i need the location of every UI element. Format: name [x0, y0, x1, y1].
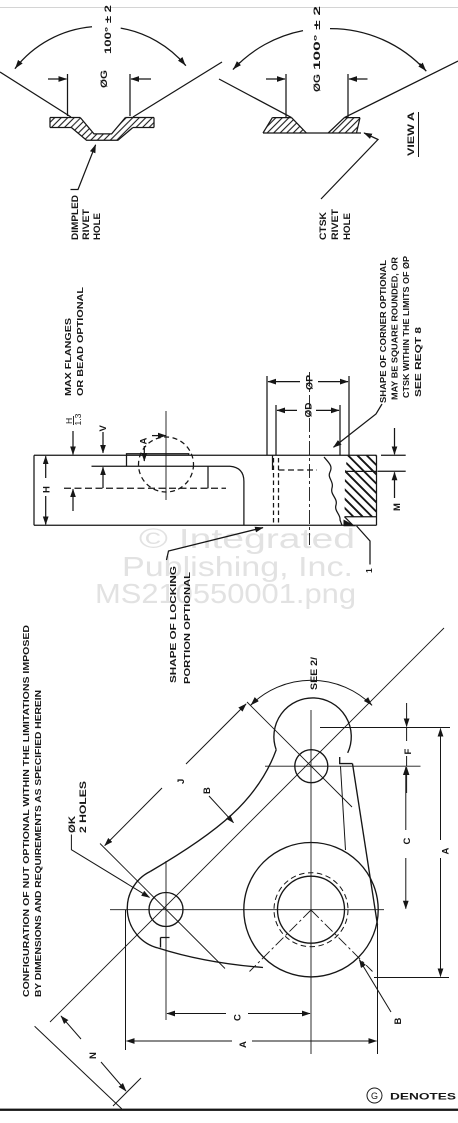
diameter P dimension line and arrows — [268, 381, 300, 383]
svg-text:100° ± 2: 100° ± 2 — [103, 5, 114, 54]
corner extension diagonal — [35, 1026, 122, 1109]
nut bore circle — [278, 876, 345, 943]
A dimension bottom — [127, 1040, 233, 1042]
body right rounded corner — [230, 466, 244, 525]
svg-text:MAY BE SQUARE ROUNDED, OR: MAY BE SQUARE ROUNDED, OR — [390, 257, 400, 400]
thread centerline (side view) — [309, 372, 311, 545]
countersink angle line right (view 1) — [133, 62, 222, 117]
100 deg dimension arc (view 2) — [233, 31, 303, 70]
svg-text:MAX FLANGES: MAX FLANGES — [63, 318, 73, 396]
locking portion dashed top — [279, 469, 318, 471]
svg-text:PORTION OPTIONAL: PORTION OPTIONAL — [182, 572, 192, 684]
svg-text:J: J — [176, 779, 187, 784]
inner edge line below top lug — [341, 767, 346, 851]
nut bottom line — [34, 524, 377, 526]
J dimension line and arrows — [105, 788, 162, 846]
left lug step ticks — [161, 938, 170, 948]
nut body top line — [34, 454, 377, 456]
dimple cone outline (view 1) — [71, 128, 132, 141]
F dimension arrows — [406, 703, 408, 727]
svg-text:CTSK WITHIN THE LIMITS OF ØP: CTSK WITHIN THE LIMITS OF ØP — [401, 256, 411, 398]
SEE 2/ arc — [251, 680, 373, 705]
svg-text:HOLE: HOLE — [342, 213, 353, 240]
H dimension — [45, 456, 47, 478]
concave edge between lugs — [150, 750, 276, 872]
ctsk sheet bar (view 2) — [263, 118, 361, 133]
hatching of dimpled sheet — [50, 118, 80, 128]
svg-text:B: B — [393, 1018, 404, 1025]
dimpled sheet bar (view 1) — [50, 118, 154, 128]
top rivet hole — [295, 750, 328, 783]
horizontal centerline through holes — [110, 909, 384, 911]
leader B upper — [209, 796, 234, 823]
side view thread hatch — [345, 471, 377, 516]
svg-text:H: H — [42, 486, 53, 493]
svg-text:RIVET: RIVET — [330, 209, 341, 240]
countersink angle line left (view 1) — [0, 72, 71, 117]
svg-text:G: G — [371, 1091, 378, 1101]
svg-text:SEE 2/: SEE 2/ — [309, 657, 320, 690]
svg-text:ØK: ØK — [67, 816, 78, 833]
rivet centerline (side view) — [165, 411, 167, 500]
C dimension right side — [405, 767, 407, 830]
svg-text:SHAPE OF CORNER OPTIONAL: SHAPE OF CORNER OPTIONAL — [378, 260, 388, 403]
svg-text:OR BEAD OPTIONAL: OR BEAD OPTIONAL — [75, 287, 85, 396]
bottom edge to nut body — [158, 948, 263, 968]
leader shape of locking — [167, 528, 264, 560]
bead boss outline — [127, 454, 189, 467]
nut left edge — [33, 455, 35, 525]
A left extension vertical — [125, 910, 127, 1050]
diameter D extension lines — [275, 405, 277, 455]
svg-text:ØG: ØG — [99, 70, 110, 88]
svg-text:ØG: ØG — [312, 74, 323, 92]
leader to ctsk hole — [321, 133, 378, 199]
hatching of ctsk sheet — [263, 118, 306, 133]
nut right edge — [376, 455, 378, 525]
diameter G extension lines (view 1) — [67, 74, 69, 116]
footnote 1 leader — [357, 526, 370, 565]
A right extension vertical — [377, 925, 379, 1054]
svg-text:M: M — [392, 503, 403, 511]
svg-text:B: B — [202, 787, 213, 794]
svg-text:CONFIGURATION OF NUT OPTIONAL: CONFIGURATION OF NUT OPTIONAL WITHIN THE… — [21, 625, 31, 997]
M dimension arrows — [394, 428, 396, 454]
N extension tick — [113, 1078, 141, 1106]
left lug arc — [127, 872, 158, 949]
perpendicular diagonal at top hole — [247, 702, 352, 807]
svg-text:C: C — [402, 838, 413, 845]
perpendicular diagonal at left hole — [100, 844, 225, 969]
A dimension bottom extension line — [374, 977, 449, 979]
svg-text:HOLE: HOLE — [92, 213, 103, 240]
top hole horizontal centerline — [265, 765, 421, 767]
svg-text:C: C — [233, 1014, 244, 1021]
svg-text:V: V — [98, 425, 109, 432]
countersink angle line left (view 2) — [219, 79, 292, 118]
svg-text:100° ± 2: 100° ± 2 — [312, 6, 323, 70]
thread section bottom line — [345, 516, 377, 518]
svg-text:SEE REQT 8: SEE REQT 8 — [413, 327, 423, 397]
svg-text:1.3: 1.3 — [73, 413, 83, 425]
nut body outer circle — [244, 843, 378, 977]
V dimension arrows — [102, 432, 104, 453]
diameter D dimension line and arrows — [277, 409, 297, 411]
svg-text:2 HOLES: 2 HOLES — [78, 781, 89, 833]
countersink walls (view 2) — [292, 118, 345, 133]
leader to dimpled hole — [71, 145, 96, 190]
main 45 deg diagonal centerline — [50, 628, 444, 1022]
dashed circle detail A — [139, 437, 194, 492]
svg-text:A: A — [441, 848, 452, 855]
A dimension right side — [440, 729, 442, 841]
svg-text:ØD: ØD — [304, 402, 315, 417]
bottom border line — [0, 1109, 458, 1111]
thread break wavy line — [324, 457, 342, 525]
ctsk corner filled triangle — [344, 520, 357, 527]
svg-text:1: 1 — [364, 568, 374, 573]
vertical centerline left hole — [165, 861, 167, 1020]
svg-text:CTSK: CTSK — [318, 212, 329, 240]
watermark © Integrated Publishing — [95, 523, 356, 609]
thread dashed circle — [274, 873, 348, 947]
locking portion dashed verticals — [273, 458, 275, 525]
M dimension ticks — [381, 454, 406, 456]
circled G — [367, 1088, 382, 1103]
svg-text:SHAPE OF LOCKING: SHAPE OF LOCKING — [168, 565, 178, 683]
nut corner diagonal right — [311, 910, 373, 972]
flange/body dashed line — [64, 487, 226, 489]
countersink angle line right (view 2) — [344, 61, 458, 118]
right edge of plate — [353, 764, 378, 925]
label H over 1.3 fraction — [64, 413, 83, 425]
left rivet hole — [149, 893, 183, 927]
100 deg dimension arc (view 1) — [15, 27, 92, 69]
flange underside line — [92, 465, 231, 467]
faint scan line top — [0, 6, 458, 9]
view A letter arrow — [152, 435, 166, 437]
counterbore edge vertical — [272, 455, 274, 470]
svg-text:DIMPLED: DIMPLED — [70, 195, 81, 240]
svg-text:F: F — [403, 749, 414, 755]
nut corner diagonal left — [250, 910, 312, 972]
body step vertical — [207, 466, 209, 488]
svg-text:RIVET: RIVET — [81, 209, 92, 240]
svg-text:N: N — [88, 1052, 99, 1059]
flange thickness divide line — [345, 470, 377, 472]
svg-text:© Integrated: © Integrated — [139, 523, 355, 554]
diameter G arrows (view 2) — [266, 78, 285, 80]
top lug step — [340, 757, 353, 764]
diameter G arrows (view 1) — [48, 78, 67, 80]
svg-text:A: A — [139, 438, 150, 445]
side view flange hatch — [345, 455, 377, 471]
svg-text:MS210550001.png: MS210550001.png — [95, 578, 356, 609]
svg-text:ØP: ØP — [305, 374, 316, 390]
diameter P extension lines — [266, 376, 268, 455]
top lug arc — [274, 698, 351, 753]
leader B lower — [359, 960, 391, 1012]
H/1.3 dimension arrows — [72, 431, 74, 454]
ctsk corner diagonal — [345, 517, 354, 526]
C dimension bottom — [167, 1013, 226, 1015]
diameter G extension lines (view 2) — [285, 74, 287, 117]
svg-text:BY DIMENSIONS AND REQUIREMENTS: BY DIMENSIONS AND REQUIREMENTS AS SPECIF… — [33, 690, 43, 997]
N dimension line and arrows — [61, 1016, 81, 1039]
svg-text:VIEW A: VIEW A — [406, 112, 417, 156]
F dimension extension line top — [320, 727, 450, 729]
leader diameter K — [71, 835, 149, 898]
leader shape of corner — [334, 404, 383, 447]
vertical centerline nut and top hole — [310, 710, 312, 1054]
svg-text:DENOTES: DENOTES — [390, 1092, 456, 1103]
svg-text:A: A — [238, 1041, 249, 1048]
